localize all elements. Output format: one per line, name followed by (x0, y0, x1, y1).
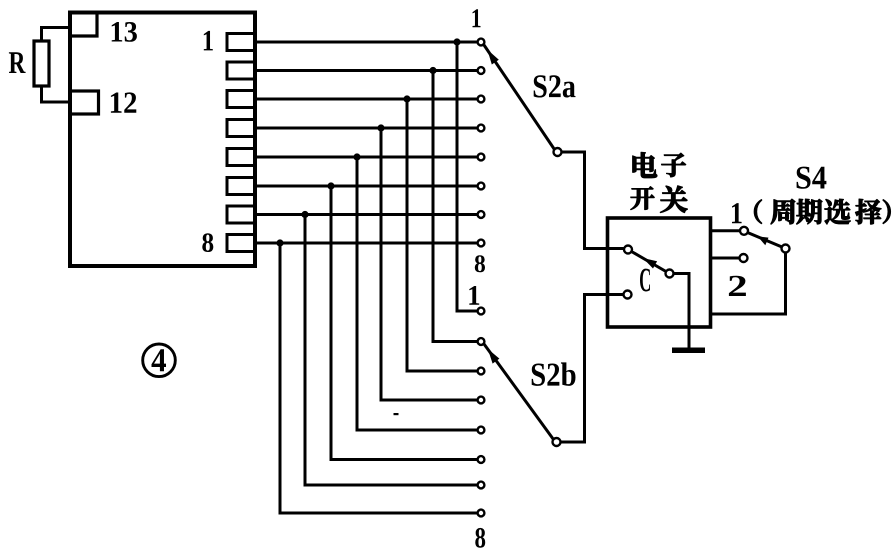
wire pin8 to S2a contact8 (255, 242, 477, 245)
wire branch 6 down to S2b contact6 (331, 186, 477, 460)
junction wire3/branch3 (403, 95, 410, 102)
wire pin4 to S2a contact4 (255, 127, 477, 130)
wire pin6 to S2a contact6 (255, 185, 477, 188)
wire pin1 to S2a contact1 (255, 41, 477, 44)
S2a contact 8 (478, 240, 485, 247)
U2 wiper (632, 252, 674, 278)
U2 input contact A (624, 246, 632, 254)
IC pin 12 tab (70, 91, 99, 114)
label 12 (111, 92, 136, 112)
S2a contact 7 (478, 211, 485, 218)
junction wire5/branch5 (353, 153, 360, 160)
label S2b-1 (469, 286, 479, 305)
wire branch 4 down to S2b contact4 (381, 128, 477, 400)
label S2a-1 (473, 9, 481, 27)
label char guan (关) (660, 186, 687, 213)
S2b contact 1 (478, 308, 485, 315)
S4 contact 1 (740, 227, 748, 235)
label pin8 (202, 233, 213, 252)
S2b contact 5 (478, 427, 485, 434)
junction wire8/branch8 (276, 239, 283, 246)
S4 contact 2 (740, 254, 748, 262)
IC U1 body (70, 13, 255, 267)
wire R bottom to pin12 (42, 86, 71, 102)
label S2b-8 (475, 528, 485, 548)
S2a contact 1 (478, 39, 485, 46)
label S2b (532, 362, 576, 386)
IC pin 3 (227, 91, 255, 108)
wire branch 5 down to S2b contact5 (357, 157, 477, 430)
switch S2b wiper (484, 344, 561, 446)
wire branch 2 down to S2b contact2 (433, 71, 477, 342)
IC pin 13 tab (70, 14, 97, 36)
S2a contact 4 (478, 125, 485, 132)
junction wire2/branch2 (429, 67, 436, 74)
label char lparen (（) (754, 200, 762, 224)
wire pin2 to S2a contact2 (255, 69, 477, 72)
IC pin 8 (227, 235, 255, 252)
wire S4 wiper return to U2 (711, 253, 786, 315)
resistor R (34, 41, 49, 86)
S2b contact 3 (478, 368, 485, 375)
label char xuan (选) (825, 199, 851, 224)
label R (9, 52, 26, 73)
label pin1 (204, 31, 213, 50)
label S2a (534, 75, 576, 97)
IC pin 5 (227, 149, 255, 166)
IC pin 2 (227, 62, 255, 79)
junction wire7/branch7 (301, 211, 308, 218)
IC pin 4 (227, 120, 255, 137)
S2b contact 8 (478, 510, 485, 517)
wire pin7 to S2a contact7 (255, 213, 477, 216)
S2a contact 2 (478, 67, 485, 74)
label S2a-8 (475, 255, 485, 272)
junction wire6/branch6 (327, 182, 334, 189)
S2a contact 6 (478, 183, 485, 190)
label S4-1 (732, 203, 742, 223)
stray mark (394, 413, 399, 415)
ground (672, 348, 705, 354)
wire branch 1 down to S2b contact1 (457, 42, 477, 311)
junction wire4/branch4 (377, 124, 384, 131)
label char zi (子) (661, 153, 685, 177)
label char zhou (周) (771, 199, 795, 224)
wire R top to pin13 (42, 28, 71, 42)
label S4 (797, 167, 827, 189)
wire U2 to S4 contact2 (711, 257, 740, 260)
wire branch 7 down to S2b contact7 (305, 215, 477, 486)
label char ze (择) (855, 199, 881, 224)
label char dian (电) (633, 152, 657, 177)
S2b contact 6 (478, 456, 485, 463)
IC pin 6 (227, 178, 255, 195)
wire pin5 to S2a contact5 (255, 156, 477, 159)
wire U2 wiper to ground (674, 274, 690, 349)
wire pin3 to S2a contact3 (255, 98, 477, 101)
S2a contact 3 (478, 96, 485, 103)
IC pin 7 (227, 206, 255, 223)
label 2 (729, 276, 746, 296)
junction wire1/branch1 (453, 38, 460, 45)
wire U2 to S4 contact1 (711, 229, 741, 232)
wire branch 3 down to S2b contact3 (407, 99, 477, 371)
S2b contact 2 (478, 338, 485, 345)
label char kai (开) (631, 187, 655, 210)
label C (640, 269, 650, 292)
S2b contact 7 (478, 482, 485, 489)
S2a contact 5 (478, 154, 485, 161)
label 13 (112, 22, 137, 42)
wire S2b wiper to switch box (561, 295, 624, 443)
label char qi (期) (796, 199, 822, 224)
IC pin 1 (227, 34, 255, 51)
label char rparen (）) (883, 200, 891, 224)
switch S2a wiper (484, 45, 562, 156)
switch S4 wiper (748, 233, 790, 253)
U2 input contact B (624, 291, 632, 299)
wire S2a wiper to switch box (562, 152, 624, 249)
figure number circle 4 (143, 344, 176, 377)
wire branch 8 down to S2b contact8 (280, 243, 477, 513)
S2b contact 4 (478, 397, 485, 404)
label fig4 (152, 349, 167, 371)
electronic switch box U2 (608, 218, 711, 327)
